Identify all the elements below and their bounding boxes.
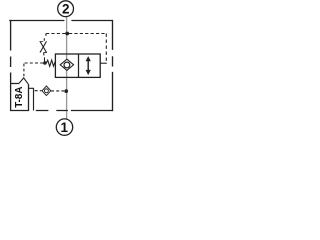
svg-text:2: 2 bbox=[62, 2, 70, 17]
junction dot B (port 1) bbox=[64, 89, 68, 93]
spring tent on cavity box bbox=[19, 78, 29, 85]
valve body envelope bbox=[55, 54, 100, 77]
pilot line left (dashed, dot to restriction) bbox=[46, 33, 66, 35]
port 2 circle bbox=[58, 1, 74, 17]
pilot line right vertical bbox=[105, 34, 107, 63]
svg-text:1: 1 bbox=[61, 120, 69, 135]
port 1 circle bbox=[56, 119, 72, 135]
vent vertical down to spring tent (dashed) bbox=[23, 64, 25, 77]
port 2 line (gray vertical) bbox=[66, 17, 68, 119]
restriction end caps bbox=[40, 41, 48, 52]
envelope frame top edge bbox=[9, 20, 112, 22]
pilot stub into valve right side bbox=[100, 62, 107, 64]
pilot line right (dashed, port2 to right actuator) bbox=[69, 33, 106, 35]
valve position divider bbox=[78, 54, 80, 77]
pilot/vent line left from dot A (dashed) bbox=[24, 62, 43, 64]
junction dot A (spring-side) bbox=[43, 61, 47, 65]
box to frame corner link bbox=[29, 88, 34, 110]
check valve ball bbox=[64, 62, 70, 68]
restriction X bbox=[40, 41, 47, 52]
drain check diamond bbox=[42, 86, 51, 96]
junction dot (port 2 pilot tap) bbox=[65, 32, 69, 36]
envelope frame left edge (solid then long dashes) bbox=[10, 20, 12, 82]
pilot vertical through restriction (dashed) bbox=[44, 34, 46, 41]
check valve diamond (left position) bbox=[60, 59, 73, 70]
pilot vertical below restriction bbox=[43, 53, 46, 62]
envelope frame right edge bbox=[112, 20, 114, 111]
spring at valve left side bbox=[46, 60, 55, 66]
drain check line (dashed) bbox=[35, 90, 42, 92]
drain dashed to port 1 bbox=[51, 90, 64, 92]
envelope frame bottom edge bbox=[36, 110, 113, 112]
flow arrow (right position, double-headed) bbox=[87, 60, 89, 71]
drain check ball bbox=[44, 89, 48, 93]
svg-text:T-8A: T-8A bbox=[14, 87, 25, 108]
T-8A cavity box bbox=[11, 82, 29, 111]
